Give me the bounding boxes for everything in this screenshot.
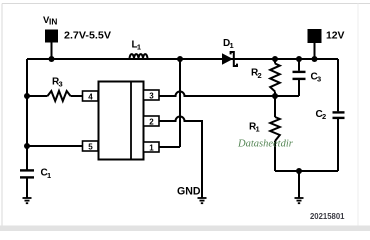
wire pin1 to switch node <box>159 146 180 148</box>
wire ground stem right <box>298 171 300 198</box>
wire C1 ground stem <box>26 179 28 198</box>
wire pin2 to GND with hop <box>159 117 202 198</box>
wire top bus VIN to output <box>27 58 338 60</box>
pin 3 <box>144 90 160 100</box>
wire right rail to C2 <box>337 59 339 111</box>
junction ground bottom <box>296 168 302 174</box>
resistor R3 <box>48 91 71 101</box>
wire R2 bottom stub <box>274 92 276 97</box>
page frame top line <box>2 3 370 5</box>
svg-text:12V: 12V <box>326 31 345 42</box>
diode D1 (Schottky) <box>222 52 237 66</box>
page frame right line <box>357 4 359 227</box>
wire VIN stem <box>51 42 53 59</box>
svg-text:GND: GND <box>177 186 201 198</box>
resistor R1 <box>270 117 280 141</box>
pin 4 <box>83 91 99 101</box>
svg-text:20215801: 20215801 <box>310 211 345 221</box>
svg-text:3: 3 <box>149 91 154 100</box>
junction VIN on bus <box>49 56 55 62</box>
junction R2 top on bus <box>272 56 278 62</box>
junction switch node on bus <box>177 56 183 62</box>
IC U1 body <box>99 82 144 160</box>
page frame left line <box>1 4 3 227</box>
junction feedback node <box>272 93 278 99</box>
VIN terminal square <box>45 30 58 43</box>
pin 5 <box>83 141 99 151</box>
wire left rail <box>26 59 28 170</box>
pin 1 <box>144 142 160 152</box>
inductor L1 <box>130 54 148 59</box>
capacitor C3 <box>293 72 306 79</box>
svg-text:2.7V-5.5V: 2.7V-5.5V <box>64 31 111 42</box>
svg-text:VIN: VIN <box>43 15 57 27</box>
wire R2 top stub <box>274 59 276 64</box>
wire switch node vertical <box>179 59 181 147</box>
svg-text:Datasheetdir: Datasheetdir <box>237 139 294 150</box>
svg-text:4: 4 <box>88 92 93 101</box>
wire 12V stem <box>314 42 316 59</box>
page frame bottom band <box>0 226 370 232</box>
wire bottom output return <box>275 170 338 172</box>
svg-text:5: 5 <box>88 142 93 151</box>
svg-text:1: 1 <box>149 143 154 152</box>
ground output <box>295 198 304 203</box>
wire R3 left <box>27 95 48 97</box>
svg-text:2: 2 <box>149 117 154 126</box>
ground C1 <box>23 198 32 203</box>
wire C3 bottom stub <box>298 80 300 96</box>
wire pin5 to left rail <box>27 145 83 147</box>
wire R3 right to pin4 <box>71 95 83 97</box>
pin 2 <box>144 116 160 126</box>
capacitor C1 <box>20 170 34 177</box>
junction C3 top on bus <box>296 56 302 62</box>
wire R1 bottom stub <box>274 141 276 171</box>
wire pin3 to feedback node with hop <box>159 92 299 97</box>
junction 12V on bus <box>312 56 318 62</box>
wire R1 top stub <box>274 96 276 117</box>
resistor R2 <box>270 64 280 92</box>
12V terminal square <box>308 29 322 43</box>
junction pin5 left rail <box>24 143 30 149</box>
ground GND pin2 <box>198 198 207 203</box>
wire C2 bottom stub <box>337 119 339 171</box>
junction R3 left rail <box>24 93 30 99</box>
wire C3 top stub <box>298 59 300 71</box>
capacitor C2 <box>333 112 345 118</box>
